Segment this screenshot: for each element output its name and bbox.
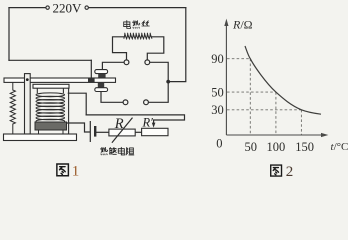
wire top-left to 220V terminal <box>9 7 46 9</box>
wire upper-right post to junction <box>150 62 169 81</box>
junction node <box>166 80 170 84</box>
battery short plate <box>94 126 96 137</box>
wire upper-left post to top contact <box>102 62 124 69</box>
contact lower cap <box>95 88 108 92</box>
svg-text:2: 2 <box>286 164 294 178</box>
electromagnet top plate <box>33 84 69 88</box>
svg-text:R/Ω: R/Ω <box>232 18 253 32</box>
svg-text:30: 30 <box>211 103 224 117</box>
wire heater coil right lead <box>147 37 164 60</box>
contact upper block <box>98 74 105 79</box>
graph labels <box>211 18 348 155</box>
electromagnet base <box>4 134 77 141</box>
thermistor diagonal stroke <box>112 118 133 143</box>
svg-text:220V: 220V <box>53 0 83 15</box>
thermistor R box <box>109 129 135 136</box>
wire 220V line right side to junction <box>168 8 186 82</box>
wire 220V right terminal to right corner <box>88 7 185 9</box>
binding post upper-left <box>124 60 129 65</box>
label 图2 <box>271 165 282 176</box>
x-axis arrowhead <box>321 133 328 137</box>
heater coil element <box>124 33 152 39</box>
pivot post <box>25 74 31 134</box>
binding post upper-right <box>145 60 150 65</box>
electromagnet core neck <box>37 88 63 93</box>
wire battery to R <box>96 131 109 133</box>
y-axis <box>225 22 227 135</box>
label 图1 <box>57 164 69 176</box>
wire R to R' <box>135 131 141 133</box>
dashed 100C vertical <box>275 92 277 134</box>
spring <box>10 82 15 134</box>
electromagnet lower flange <box>35 122 67 130</box>
battery long plate <box>89 121 91 142</box>
electromagnet coil windings <box>36 93 65 123</box>
svg-text:150: 150 <box>295 140 314 154</box>
wire drop to armature contact <box>90 60 92 78</box>
dashed 90 horizontal <box>227 58 250 60</box>
svg-text:90: 90 <box>211 52 224 66</box>
binding post lower-left <box>123 100 128 105</box>
svg-text:0: 0 <box>216 136 222 150</box>
dashed 30 horizontal <box>227 109 301 111</box>
pivot dot <box>26 78 29 81</box>
svg-text:50: 50 <box>245 140 258 154</box>
contact upper cap <box>95 70 108 74</box>
terminal 220V right <box>85 6 88 9</box>
armature bar <box>4 78 116 82</box>
armature moving contact <box>88 78 95 82</box>
wire coil bottom lead to battery <box>66 123 90 132</box>
graph axes <box>226 22 324 135</box>
electromagnet pedestal <box>39 130 64 134</box>
x-axis <box>226 134 324 136</box>
dashed 50 horizontal <box>227 91 276 93</box>
svg-text:t/°C: t/°C <box>331 141 348 153</box>
label 热敏电阻 <box>100 147 133 155</box>
wire lower-left post to bottom contact <box>101 92 123 103</box>
R-t curve <box>245 46 321 114</box>
svg-text:50: 50 <box>211 85 224 99</box>
dashed guide lines <box>227 59 301 135</box>
wire heater coil left lead <box>113 37 127 60</box>
y-axis arrowhead <box>224 19 228 26</box>
label heater 电热丝 <box>124 21 150 29</box>
wire junction down to lower-right post <box>148 82 168 103</box>
dashed 50C vertical <box>249 59 251 135</box>
dashed 150C vertical <box>300 110 302 135</box>
wiper arrowhead <box>152 123 156 128</box>
wire left side drop <box>8 8 10 61</box>
binding post lower-right <box>144 100 149 105</box>
wire wiper horizontal with hook <box>86 115 184 123</box>
svg-text:R: R <box>114 116 124 132</box>
electromagnet right support <box>68 88 70 134</box>
contact lower block <box>98 82 104 87</box>
svg-text:100: 100 <box>267 140 286 154</box>
svg-text:1: 1 <box>72 164 80 178</box>
wire coil top lead to wiper line <box>68 93 86 115</box>
svg-text:R′: R′ <box>142 115 154 129</box>
terminal 220V left <box>46 6 49 9</box>
rheostat R' box <box>142 128 168 135</box>
wire left horizontal to armature <box>9 59 91 61</box>
